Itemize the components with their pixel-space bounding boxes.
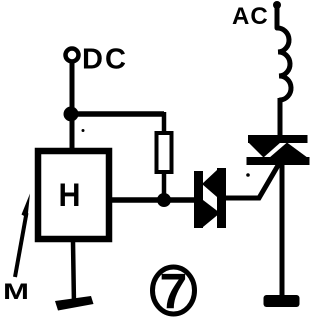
svg-text:DC: DC bbox=[82, 44, 128, 76]
svg-text:7: 7 bbox=[160, 264, 188, 320]
svg-text:AC: AC bbox=[232, 3, 269, 30]
svg-text:M: M bbox=[3, 279, 29, 304]
svg-text:H: H bbox=[59, 177, 81, 213]
